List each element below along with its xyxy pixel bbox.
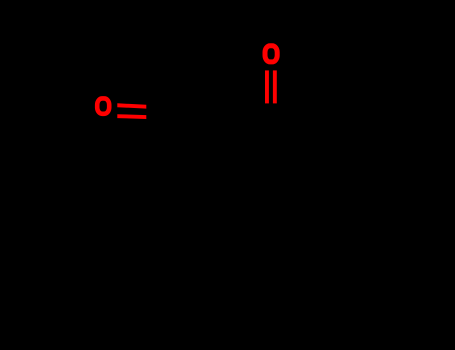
- ketone C=O double bond line 2 (right vertical): [273, 70, 277, 103]
- aldehyde C=O double bond line 2 (lower horizontal): [117, 114, 146, 119]
- ketone C=O double bond line 1 (left vertical): [265, 70, 269, 103]
- aldehyde oxygen atom O (left): [97, 98, 109, 113]
- ketone oxygen atom O (top): [265, 46, 277, 62]
- aldehyde C=O double bond line 1 (upper horizontal): [117, 103, 146, 108]
